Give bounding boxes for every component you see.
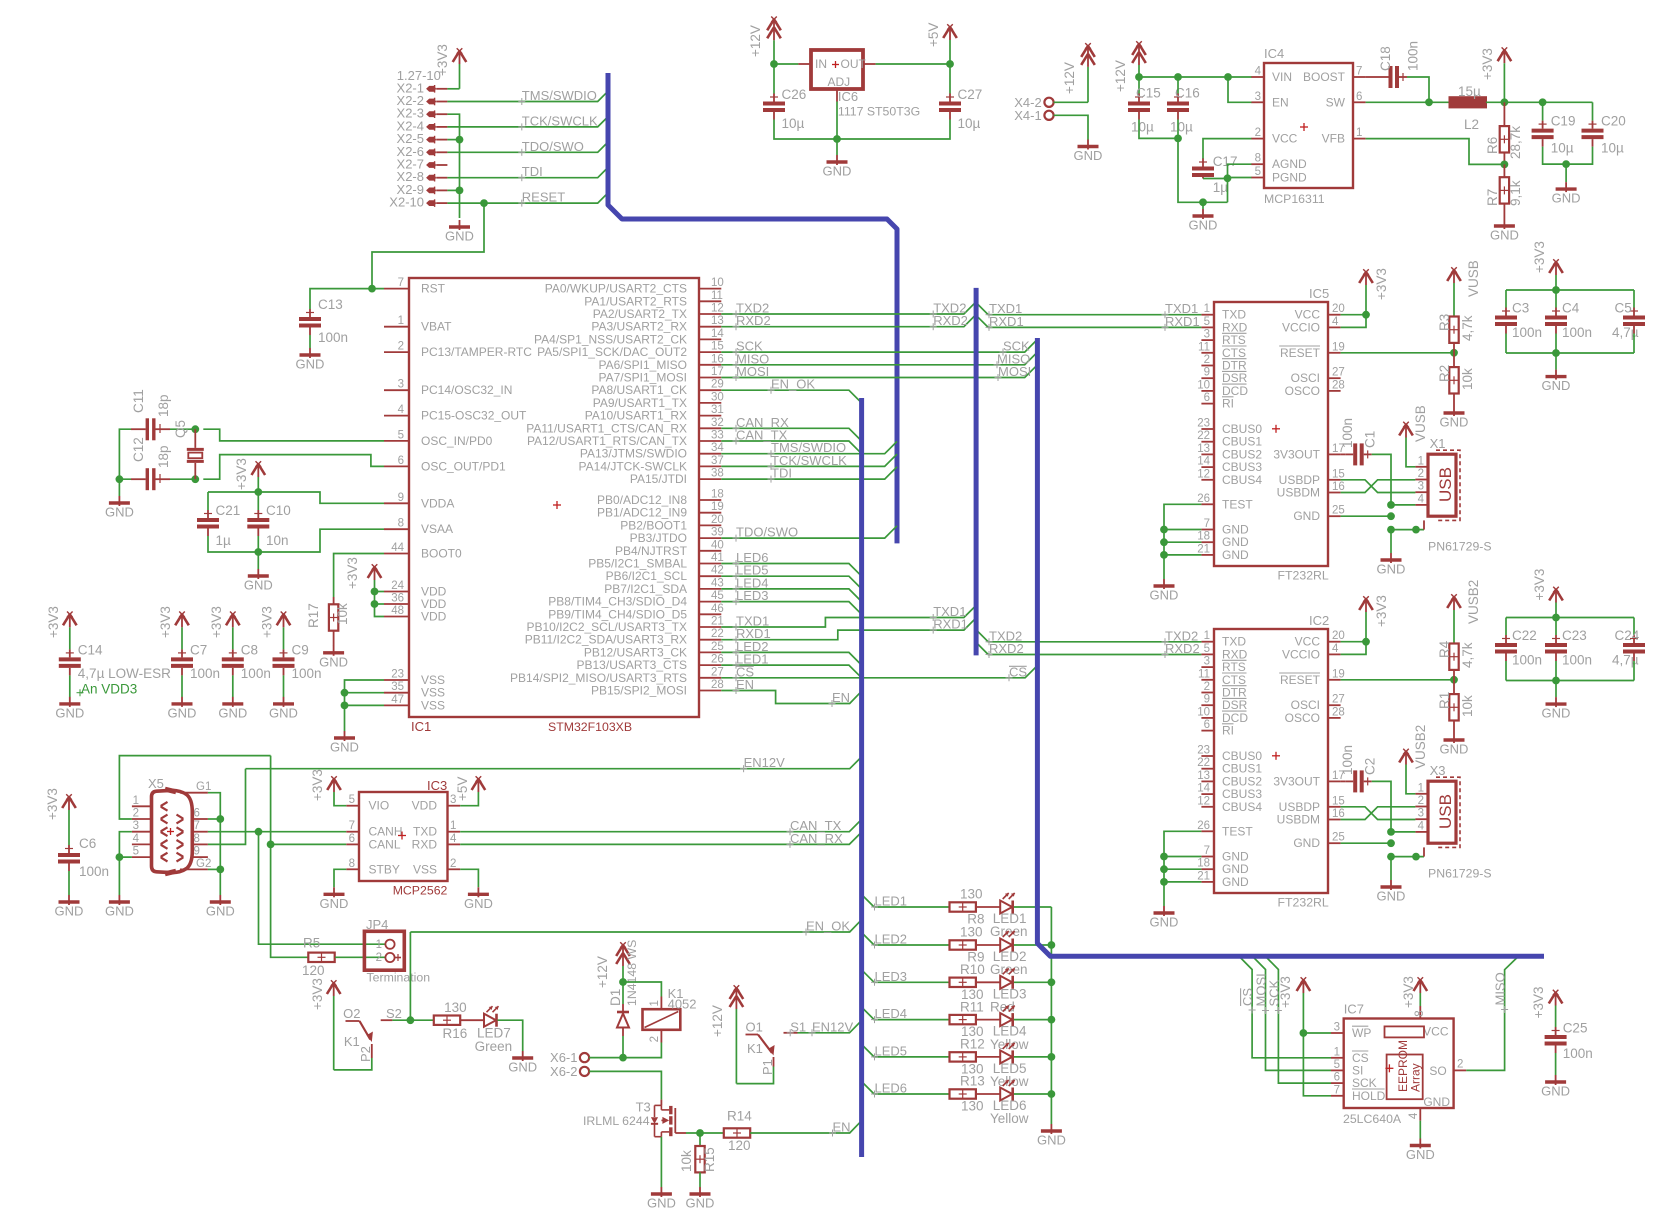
svg-text:11: 11 — [711, 290, 723, 302]
svg-text:GND: GND — [1037, 1133, 1066, 1148]
svg-text:100n: 100n — [1563, 1046, 1593, 1061]
svg-text:VIN: VIN — [1272, 70, 1292, 84]
svg-text:GND: GND — [1490, 228, 1519, 243]
svg-text:14: 14 — [711, 328, 724, 340]
wire LED gnd rail — [1050, 907, 1052, 1124]
svg-text:6: 6 — [1204, 392, 1210, 404]
label MISO (bus) — [994, 351, 1031, 368]
wire X4-2 to +12V — [1054, 101, 1088, 103]
svg-text:18p: 18p — [156, 394, 171, 417]
svg-text:5: 5 — [133, 846, 139, 858]
wire C8 gnd — [232, 675, 234, 697]
capacitor C8 — [222, 642, 271, 681]
ground (IC6) — [823, 155, 852, 179]
svg-text:5: 5 — [1204, 643, 1210, 655]
svg-text:GND: GND — [1150, 588, 1179, 603]
power +3V3 (reg out) — [1480, 47, 1511, 102]
junction R6 top — [1501, 98, 1509, 106]
junction IC5 VCC — [1362, 311, 1370, 319]
wire gnd stem C4 — [1555, 353, 1557, 370]
wire RXD2 (IC2) — [976, 642, 1201, 654]
svg-text:31: 31 — [711, 404, 724, 416]
ground (X5 shield) — [206, 895, 235, 919]
junction C16 bottom — [1174, 135, 1182, 143]
CAN transceiver IC3 MCP2562 — [346, 778, 460, 897]
svg-text:LED2: LED2 — [875, 932, 908, 947]
label LED4 (IC1) — [733, 575, 769, 592]
junction C15 top — [1135, 73, 1143, 81]
svg-text:3: 3 — [133, 820, 139, 832]
svg-text:23: 23 — [391, 669, 404, 681]
svg-text:15: 15 — [1332, 795, 1345, 807]
svg-text:IC1: IC1 — [411, 719, 431, 734]
svg-text:C23: C23 — [1562, 628, 1587, 643]
svg-text:TDO/SWO: TDO/SWO — [736, 525, 798, 540]
wire RXD1 (IC1) — [721, 618, 976, 640]
svg-text:4: 4 — [133, 833, 140, 845]
connector X2 labels — [389, 68, 441, 209]
svg-text:120: 120 — [302, 963, 325, 978]
svg-text:26: 26 — [1197, 820, 1210, 832]
svg-text:35: 35 — [391, 681, 404, 693]
resistor R9 — [950, 925, 985, 965]
junction IC5 u3 — [1387, 526, 1395, 534]
svg-text:VCC: VCC — [1272, 132, 1298, 146]
svg-text:LED5: LED5 — [875, 1043, 908, 1058]
wire VSS rail — [345, 680, 385, 731]
svg-text:OSC_IN/PD0: OSC_IN/PD0 — [421, 434, 493, 448]
label TXD2 (IC2) — [986, 628, 1199, 645]
svg-text:38: 38 — [711, 468, 724, 480]
wire C23 bot — [1555, 661, 1557, 681]
svg-text:+12V: +12V — [595, 956, 610, 988]
svg-text:C27: C27 — [958, 87, 983, 102]
svg-text:Green: Green — [990, 962, 1028, 977]
wire TMS/SWDIO (X2-2) — [447, 91, 608, 101]
svg-text:PA15/JTDI: PA15/JTDI — [630, 472, 687, 486]
svg-text:VUSB: VUSB — [1466, 260, 1481, 297]
svg-text:1: 1 — [133, 795, 139, 807]
svg-text:Yellow: Yellow — [990, 1074, 1029, 1089]
svg-text:1µ: 1µ — [1213, 180, 1229, 195]
svg-text:GND: GND — [1552, 191, 1581, 206]
junction EN branch — [1224, 73, 1232, 81]
svg-text:4: 4 — [1255, 66, 1262, 78]
label LED5 (IC1) — [733, 563, 769, 580]
svg-text:USBDM: USBDM — [1277, 486, 1320, 500]
svg-text:IC4: IC4 — [1264, 46, 1284, 61]
svg-text:2: 2 — [1418, 468, 1424, 480]
ground (X2) — [445, 220, 474, 244]
svg-text:RXD1: RXD1 — [989, 314, 1024, 329]
power +3V3 (C4) — [1532, 241, 1563, 290]
label TCK/SWCLK — [518, 113, 598, 130]
connector X5 DB9 — [132, 776, 211, 874]
label TDO/SWO — [518, 139, 584, 156]
ground (C14) — [55, 697, 84, 721]
svg-text:Q5: Q5 — [173, 420, 188, 438]
wire CANH to JP4-1 — [259, 832, 386, 945]
wire IC5 GND7 — [1164, 529, 1201, 531]
power +3V3 (X2) — [435, 44, 466, 89]
wire TCK/SWCLK (IC1) — [721, 454, 897, 466]
wire S2 to node — [392, 1019, 434, 1021]
junction R6/R7 — [1501, 161, 1509, 169]
svg-text:4: 4 — [1332, 643, 1339, 655]
svg-text:TDI: TDI — [522, 164, 543, 179]
capacitor C5 — [1612, 301, 1645, 341]
junction X6-1 node — [619, 1054, 627, 1062]
capacitor C13 — [299, 297, 348, 345]
svg-text:L2: L2 — [1464, 117, 1479, 132]
svg-text:R12: R12 — [960, 1037, 985, 1052]
svg-text:R1: R1 — [1437, 692, 1452, 709]
wire C26 top — [773, 64, 775, 94]
LED LED2 — [990, 931, 1028, 977]
wire AGND — [1228, 164, 1252, 178]
svg-text:4,7µ LOW-ESR: 4,7µ LOW-ESR — [78, 666, 171, 681]
wire LED2 from bus — [862, 933, 950, 946]
svg-text:SCK: SCK — [1266, 979, 1281, 1006]
junction C19 top — [1539, 98, 1547, 106]
svg-text:C6: C6 — [79, 836, 96, 851]
power +3V3 (IC3) — [310, 769, 341, 801]
diode D1 1N4148 — [608, 940, 639, 1036]
junction IC5 u2 — [1387, 512, 1395, 520]
svg-text:6: 6 — [398, 455, 404, 467]
svg-text:GND: GND — [1074, 148, 1103, 163]
wire R3 bot — [1453, 343, 1455, 353]
junction X2-5 — [456, 136, 464, 144]
wire RST to C13 — [310, 289, 372, 309]
svg-text:GND: GND — [1293, 509, 1320, 523]
USB-UART IC2 FT232RL — [1197, 613, 1345, 910]
wire EN from R14 — [750, 1121, 861, 1133]
svg-text:10µ: 10µ — [1551, 141, 1574, 156]
wire IC5 3V3OUT — [1341, 453, 1346, 455]
wire LED1 from bus — [862, 895, 950, 908]
label TXD2 (bus) — [930, 301, 967, 318]
wire C25 gnd — [1555, 1053, 1557, 1075]
svg-text:6: 6 — [1334, 1072, 1340, 1084]
svg-text:C20: C20 — [1601, 114, 1626, 129]
label LED2 (IC1) — [733, 639, 769, 656]
junction IC2 VCC — [1362, 638, 1370, 646]
svg-text:20: 20 — [1332, 630, 1345, 642]
svg-text:+12V: +12V — [748, 25, 763, 57]
svg-text:VSS: VSS — [421, 698, 445, 712]
USB-UART IC5 FT232RL — [1197, 286, 1345, 583]
svg-text:VUSB: VUSB — [1413, 405, 1428, 442]
svg-text:LED1: LED1 — [875, 894, 908, 909]
resistor R13 — [950, 1074, 985, 1114]
svg-text:40: 40 — [711, 539, 724, 551]
svg-text:S1: S1 — [790, 1019, 806, 1034]
wire TXD2 (IC1) — [721, 302, 976, 314]
svg-text:GND: GND — [445, 229, 474, 244]
svg-text:C1: C1 — [1363, 431, 1378, 448]
svg-text:CAN_RX: CAN_RX — [790, 831, 843, 846]
svg-text:+3V3: +3V3 — [310, 769, 325, 801]
junction CANL — [267, 841, 275, 849]
svg-text:GND: GND — [330, 740, 359, 755]
wire VDD 24 — [375, 591, 385, 593]
wire EN12V long — [246, 756, 863, 768]
wire R8-LED1 — [976, 906, 1000, 908]
svg-text:TMS/SWDIO: TMS/SWDIO — [522, 88, 597, 103]
wire EN_OK (IC1) — [721, 390, 861, 403]
svg-text:+3V3: +3V3 — [345, 557, 360, 589]
svg-text:1: 1 — [450, 820, 456, 832]
ground (IC3 VSS) — [464, 887, 493, 911]
svg-text:RXD2: RXD2 — [736, 313, 771, 328]
wire C5 top — [1633, 290, 1635, 308]
svg-text:VBAT: VBAT — [421, 320, 452, 334]
label TDI — [518, 164, 542, 181]
svg-text:22: 22 — [1197, 757, 1210, 769]
label EN_OK (IC1) — [768, 377, 816, 394]
svg-text:BOOST: BOOST — [1303, 70, 1346, 84]
wire K1-1 pole — [736, 1067, 773, 1084]
wire C3 top — [1505, 290, 1507, 308]
bus EN/LED/CAN — [859, 398, 864, 1157]
svg-text:IC5: IC5 — [1309, 286, 1329, 301]
svg-text:7: 7 — [1356, 66, 1362, 78]
svg-text:46: 46 — [711, 603, 724, 615]
ground (IC2 USB) — [1377, 880, 1406, 904]
svg-text:G1: G1 — [196, 781, 211, 793]
svg-text:34: 34 — [711, 442, 724, 454]
junction VDD24 — [371, 588, 379, 596]
wire X1 pin4 — [1391, 504, 1415, 506]
svg-text:RXD2: RXD2 — [989, 641, 1024, 656]
svg-text:4052: 4052 — [668, 997, 697, 1012]
svg-text:IN: IN — [815, 57, 827, 71]
svg-text:20: 20 — [1332, 303, 1345, 315]
svg-text:1µ: 1µ — [216, 533, 232, 548]
svg-text:+12V: +12V — [1113, 60, 1128, 92]
svg-text:C19: C19 — [1551, 114, 1576, 129]
svg-text:OSCO: OSCO — [1285, 384, 1320, 398]
svg-text:GND: GND — [1189, 218, 1218, 233]
wire SW to L2 — [1366, 101, 1450, 103]
wire C10 bottom — [257, 536, 259, 552]
svg-text:1: 1 — [1418, 782, 1424, 794]
wire C24 bot — [1633, 661, 1635, 681]
svg-text:IRLML 6244: IRLML 6244 — [583, 1114, 650, 1128]
svg-text:TCK/SWCLK: TCK/SWCLK — [522, 113, 598, 128]
svg-text:18p: 18p — [156, 445, 171, 468]
svg-text:LED3: LED3 — [875, 969, 908, 984]
svg-text:44: 44 — [391, 542, 404, 554]
wire LED6 from bus — [862, 1082, 950, 1095]
power +3V3 (C8) — [209, 606, 240, 649]
ground (C23) — [1542, 697, 1571, 721]
wire gnd rail IC4 — [1178, 138, 1228, 202]
label RXD2 (bus) — [930, 313, 968, 330]
svg-text:9: 9 — [1204, 694, 1210, 706]
resistor R14 — [724, 1109, 752, 1154]
ground (X4) — [1074, 140, 1103, 164]
wire X5 gnd stem — [118, 857, 120, 895]
capacitor C3 — [1495, 301, 1542, 341]
ground (C4) — [1542, 370, 1571, 394]
junction IC2 G21 — [1160, 878, 1168, 886]
svg-text:GND: GND — [1542, 706, 1571, 721]
wire IC5 GND25 — [1341, 515, 1391, 517]
svg-text:USB: USB — [1436, 794, 1455, 829]
svg-text:8: 8 — [194, 833, 200, 845]
label TXD1 (bus mid) — [930, 604, 967, 621]
svg-text:CBUS4: CBUS4 — [1222, 800, 1262, 814]
svg-text:LED6: LED6 — [875, 1081, 908, 1096]
svg-text:SO: SO — [1429, 1064, 1446, 1078]
bus SPI — [1037, 338, 1544, 956]
junction C16 top — [1174, 73, 1182, 81]
svg-text:R6: R6 — [1485, 137, 1500, 154]
wire IC2 GND25 — [1341, 842, 1391, 844]
svg-text:10µ: 10µ — [958, 116, 981, 131]
wire C7 gnd — [181, 675, 183, 697]
junction D1 top — [619, 978, 627, 986]
svg-text:36: 36 — [391, 593, 404, 605]
junction IC2 u3 — [1387, 853, 1395, 861]
svg-text:100n: 100n — [318, 330, 348, 345]
capacitor C12 — [131, 437, 171, 490]
label TDO/SWO (IC1) — [733, 525, 799, 542]
wire IC2 GND21 — [1164, 881, 1201, 883]
ground (C25) — [1541, 1075, 1570, 1099]
junction WP — [1300, 1029, 1308, 1037]
wire R4 bot — [1453, 670, 1455, 680]
svg-text:R5: R5 — [303, 935, 320, 950]
wire R2 leads — [1453, 353, 1455, 406]
svg-text:Termination: Termination — [367, 971, 431, 985]
label LED3 — [871, 969, 907, 986]
resistor R16 — [434, 1000, 467, 1041]
wire R7 leads — [1503, 164, 1505, 219]
wire osc gnd stem — [118, 479, 120, 496]
wire C19/C20 bottom — [1543, 147, 1593, 165]
wire X4-1 to gnd — [1054, 115, 1088, 139]
svg-text:3: 3 — [1204, 656, 1210, 668]
wire C23 top — [1555, 618, 1557, 636]
ground (C13) — [296, 348, 325, 372]
svg-text:120: 120 — [728, 1138, 751, 1153]
power +3V3 (C14) — [46, 606, 77, 649]
svg-text:5: 5 — [1255, 166, 1261, 178]
wire R10-LED3 — [976, 981, 1000, 983]
wire C26 bottom — [774, 120, 837, 140]
wire LED2 (IC1) — [721, 652, 861, 665]
wire LED4 from bus — [862, 1007, 950, 1020]
svg-text:MOSI: MOSI — [736, 364, 769, 379]
junction VSAA gnd — [254, 548, 262, 556]
wire LED1 out — [1014, 906, 1052, 908]
svg-text:Yellow: Yellow — [990, 1037, 1029, 1052]
wire BOOST-C18 — [1366, 76, 1381, 78]
svg-text:VDD: VDD — [421, 610, 447, 624]
wire OSC_IN — [203, 429, 384, 441]
power +3V3 (K1-2) — [310, 978, 341, 1070]
svg-text:GND: GND — [1222, 875, 1249, 889]
svg-text:Array: Array — [1409, 1063, 1423, 1092]
power VUSB (R3) — [1447, 260, 1481, 316]
svg-text:100n: 100n — [1406, 41, 1421, 71]
svg-text:2: 2 — [450, 858, 456, 870]
wire TMS/SWDIO (IC1) — [721, 441, 897, 453]
junction IC5 G21 — [1160, 551, 1168, 559]
capacitor C22 — [1495, 628, 1542, 668]
USB connector X1 PN61729-S — [1415, 436, 1491, 553]
ground (R7) — [1490, 219, 1519, 243]
ground (IC4) — [1189, 209, 1218, 233]
svg-text:+3V3: +3V3 — [1374, 268, 1389, 300]
wire LED5 from bus — [862, 1044, 950, 1057]
junction IC5 G7 — [1160, 526, 1168, 534]
svg-text:G2: G2 — [196, 858, 211, 870]
svg-text:22: 22 — [711, 628, 724, 640]
svg-text:8: 8 — [1255, 153, 1261, 165]
wire C11 right — [170, 428, 195, 430]
wire IC2 TEST — [1164, 831, 1201, 882]
svg-text:+3V3: +3V3 — [46, 606, 61, 638]
svg-text:GND: GND — [1423, 1095, 1450, 1109]
svg-text:10µ: 10µ — [1601, 141, 1624, 156]
wire IC5 TEST — [1164, 504, 1201, 555]
svg-text:18: 18 — [1197, 858, 1210, 870]
svg-text:8: 8 — [398, 518, 404, 530]
svg-text:100n: 100n — [190, 666, 220, 681]
svg-text:An VDD3: An VDD3 — [81, 681, 137, 696]
svg-text:6: 6 — [349, 833, 355, 845]
capacitor C25 — [1545, 1021, 1593, 1061]
svg-text:D1: D1 — [608, 989, 623, 1006]
wire OSC_OUT — [203, 455, 384, 480]
wire X6-1 — [589, 1057, 623, 1059]
wire MOSI drop — [1253, 957, 1331, 1070]
svg-text:VSS: VSS — [413, 862, 437, 876]
resistor R17 — [306, 603, 350, 631]
capacitor C7 — [171, 642, 220, 681]
svg-text:1: 1 — [1356, 127, 1362, 139]
wire CS drop — [1240, 957, 1331, 1058]
svg-text:C7: C7 — [190, 642, 207, 657]
wire X3 pin1 — [1406, 765, 1415, 794]
wire C14 gnd — [69, 675, 71, 697]
svg-text:2: 2 — [649, 1036, 661, 1042]
label LED1 (IC1) — [733, 652, 769, 669]
svg-text:4: 4 — [1418, 493, 1425, 505]
wire CS (IC1) — [721, 666, 1037, 678]
capacitor C10 — [247, 503, 290, 548]
svg-text:45: 45 — [711, 590, 724, 602]
svg-text:30: 30 — [711, 391, 724, 403]
svg-text:R7: R7 — [1485, 189, 1500, 206]
wire TXD1 (IC5) — [976, 303, 1201, 315]
svg-text:STM32F103XB: STM32F103XB — [548, 720, 632, 734]
svg-text:25: 25 — [1332, 832, 1345, 844]
svg-text:GND: GND — [1542, 378, 1571, 393]
power +3V3 (IC7 WP) — [1278, 976, 1310, 1033]
svg-text:O1: O1 — [746, 1020, 763, 1035]
wire IC3 VDD — [460, 792, 478, 806]
wire EN_OK vertical — [409, 932, 411, 1020]
svg-text:26: 26 — [711, 654, 724, 666]
svg-text:C18: C18 — [1378, 46, 1393, 71]
wire S1 EN12V — [798, 1021, 862, 1033]
svg-text:18: 18 — [711, 489, 724, 501]
